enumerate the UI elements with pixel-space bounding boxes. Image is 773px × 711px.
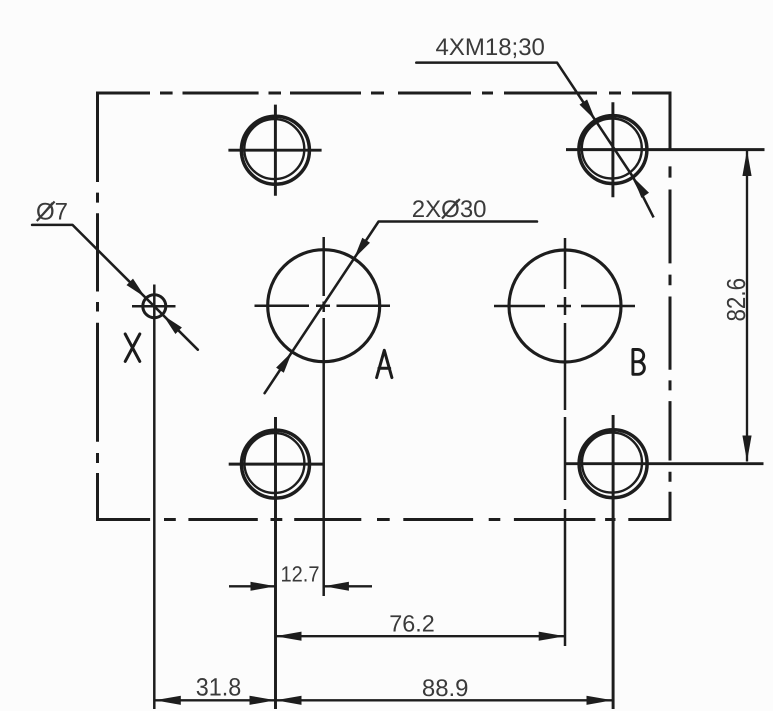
dimension 88.9 right arrowhead <box>587 696 613 705</box>
dimension 82.6 arrowhead bottom <box>742 436 751 462</box>
plate outline left edge <box>96 92 99 522</box>
svg-text:12.7: 12.7 <box>281 561 320 586</box>
mounting hole M18 bottom-left: horizontal centerline <box>229 463 324 466</box>
label O7 diameter slash overstrike <box>37 202 55 222</box>
label O7 arrowhead lower <box>163 315 182 334</box>
port A vertical centerline (extends to 12.7 dimension) <box>322 237 325 596</box>
dimension 31.8 left arrowhead <box>155 696 181 705</box>
label O7 underline and leader diagonal through hole X <box>32 225 198 350</box>
svg-text:76.2: 76.2 <box>389 611 435 637</box>
dimension 12.7 right line <box>324 585 372 587</box>
mounting hole M18 top-right: vertical centerline <box>611 102 614 197</box>
plate outline top edge <box>97 92 672 95</box>
port B vertical centerline (extends to 76.2 dimension) <box>564 238 567 646</box>
svg-text:88.9: 88.9 <box>422 675 469 702</box>
mounting hole M18 top-left: outer circle <box>241 116 309 184</box>
dimension 12.7 left line <box>229 585 276 587</box>
label 4XM18;30 arrowhead lower <box>633 177 649 198</box>
pilot port X horizontal centerline <box>132 305 176 308</box>
mounting hole M18 bottom-left: inner circle <box>244 433 304 493</box>
label 2XO30 diameter slash overstrike <box>442 199 460 219</box>
port B horizontal centerline <box>494 305 635 308</box>
dimension 76.2 line <box>276 635 565 637</box>
dimension 82.6 arrowhead top <box>742 150 751 176</box>
svg-text:Ø7: Ø7 <box>36 199 68 226</box>
dimension 76.2 right arrowhead <box>539 632 565 641</box>
pilot port X circle (d7) <box>143 295 166 318</box>
mounting hole M18 top-left: horizontal centerline <box>228 149 321 152</box>
dimension 88.9 line <box>276 699 613 701</box>
plate outline right edge <box>669 92 672 522</box>
mounting hole M18 bottom-right: horizontal centerline <box>566 462 764 465</box>
dimension 82.6 line <box>746 150 748 462</box>
plate outline bottom edge <box>97 518 672 521</box>
mounting hole M18 bottom-right: inner circle <box>582 433 642 493</box>
label 2XO30 arrowhead lower-left <box>276 352 292 373</box>
label 4XM18;30 lower leader tail <box>633 177 654 217</box>
mounting hole M18 bottom-left: vertical centerline <box>274 417 277 709</box>
label 4XM18;30 arrowhead upper <box>580 100 596 121</box>
mounting hole M18 top-left: vertical centerline <box>274 105 277 196</box>
port A horizontal centerline <box>255 304 391 307</box>
mounting hole M18 top-right: outer circle <box>579 116 647 184</box>
mounting hole M18 top-left: inner circle <box>244 119 304 179</box>
dimension 31.8 right arrowhead <box>250 696 276 705</box>
svg-text:82.6: 82.6 <box>721 278 751 322</box>
pilot port X vertical centerline (extends to 31.8 dimension) <box>153 285 156 710</box>
port label B <box>633 350 644 375</box>
label O7 arrowhead upper <box>127 279 146 298</box>
label 2XO30 underline and leader diagonal through port A <box>265 222 537 394</box>
dimension 12.7 right arrowhead <box>324 582 349 591</box>
port label A <box>377 350 392 377</box>
svg-text:31.8: 31.8 <box>196 674 242 702</box>
dimension 12.7 left arrowhead <box>251 582 276 591</box>
mounting hole M18 bottom-right: vertical centerline <box>612 415 615 709</box>
port B circle (d30) <box>509 250 621 362</box>
dimension 76.2 left arrowhead <box>276 632 302 641</box>
port label X <box>125 334 140 361</box>
mounting hole M18 top-right: horizontal centerline <box>566 148 765 151</box>
label 4XM18;30 underline and leader diagonal through top-right hole <box>416 63 633 177</box>
dimension 88.9 left arrowhead <box>276 696 302 705</box>
mounting hole M18 bottom-left: outer circle <box>242 430 310 498</box>
dimension 31.8 line <box>155 699 276 701</box>
mounting hole M18 bottom-right: outer circle <box>579 430 647 498</box>
mounting hole M18 top-right: inner circle <box>582 119 642 179</box>
port A circle (d30) <box>268 250 380 362</box>
svg-text:4XM18;30: 4XM18;30 <box>436 34 545 61</box>
label 2XO30 arrowhead upper-right <box>354 238 370 259</box>
